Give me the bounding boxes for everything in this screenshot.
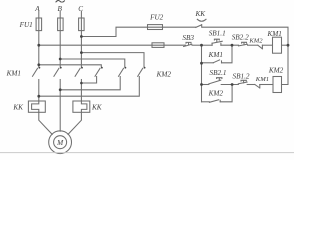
svg-text:SB1.2: SB1.2 [233, 72, 250, 80]
svg-text:KM2: KM2 [156, 70, 172, 78]
svg-text:KM2: KM2 [268, 66, 284, 74]
svg-text:KM1: KM1 [6, 69, 21, 77]
svg-text:KK: KK [195, 10, 207, 18]
svg-text:KK: KK [12, 103, 24, 111]
svg-text:SB2.1: SB2.1 [210, 69, 227, 77]
svg-text:SB3: SB3 [182, 34, 194, 42]
svg-text:B: B [58, 5, 63, 13]
svg-text:KM2: KM2 [208, 89, 224, 97]
svg-text:KK: KK [91, 103, 103, 111]
svg-text:KM2: KM2 [248, 37, 263, 44]
svg-text:SB1.1: SB1.1 [209, 30, 226, 38]
svg-text:A: A [34, 5, 40, 13]
svg-text:FU2: FU2 [149, 14, 164, 22]
svg-text:FU1: FU1 [19, 21, 33, 29]
svg-text:C: C [78, 5, 83, 13]
svg-text:KM1: KM1 [208, 51, 223, 59]
svg-text:KM1: KM1 [267, 30, 282, 38]
svg-text:SB2.2: SB2.2 [232, 34, 249, 42]
svg-text:M: M [56, 139, 64, 147]
svg-text:KM1: KM1 [255, 76, 269, 83]
